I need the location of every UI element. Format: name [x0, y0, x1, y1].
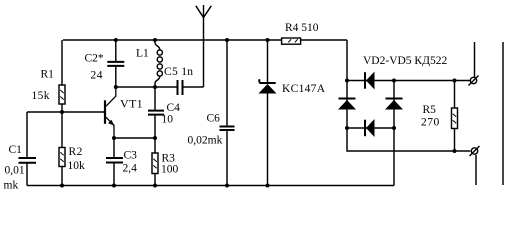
node zener top bus [266, 38, 270, 42]
resistor R4 [282, 38, 301, 44]
svg-text:R1: R1 [41, 69, 55, 81]
svg-text:270: 270 [421, 117, 440, 129]
node bridge bottom-left [345, 126, 349, 130]
svg-text:R5: R5 [423, 104, 437, 116]
svg-text:0,02mk: 0,02mk [188, 135, 223, 147]
resistor R2 [59, 112, 65, 186]
node bridge bottom-right [392, 126, 396, 130]
svg-text:KC147A: KC147A [282, 83, 326, 95]
svg-text:L1: L1 [136, 48, 149, 60]
svg-text:VT1: VT1 [120, 97, 143, 111]
wire top supply bus [63, 39, 347, 41]
node C6 ground [225, 184, 229, 188]
wire bridge bottom rail [347, 127, 394, 129]
terminal bottom output [470, 146, 480, 185]
node C6 top bus [225, 38, 229, 42]
node R3 ground [153, 184, 157, 188]
capacitor C2 [107, 40, 124, 87]
node R5 top [453, 79, 457, 83]
wire bridge right rail [393, 81, 395, 186]
node collector [114, 85, 118, 89]
node bridge top-right [392, 79, 396, 83]
wire bridge left rail [347, 40, 470, 151]
zener diode VD1 KC147A [259, 40, 277, 186]
svg-text:0,01: 0,01 [5, 165, 25, 177]
svg-text:24: 24 [91, 70, 104, 82]
node L1 top [153, 38, 157, 42]
node C3 ground [112, 184, 116, 188]
diode VD3 left [338, 99, 356, 110]
node R5 bottom [453, 149, 457, 153]
resistor R5 [452, 81, 458, 152]
svg-text:C5 1n: C5 1n [164, 66, 193, 78]
node C4 / R3 [153, 136, 157, 140]
node bridge top-left [345, 79, 349, 83]
svg-text:mk: mk [4, 180, 19, 192]
node emitter / C3 [112, 136, 116, 140]
svg-text:10: 10 [162, 114, 174, 126]
svg-text:C2*: C2* [85, 53, 104, 65]
node C2 top bus [114, 38, 118, 42]
terminal top output [469, 42, 479, 86]
capacitor C3 [106, 138, 123, 186]
svg-text:C1: C1 [9, 144, 23, 156]
inductor L1 [155, 40, 162, 87]
diode VD5 bottom [365, 119, 375, 137]
diode VD4 right [385, 99, 403, 110]
svg-text:2,4: 2,4 [123, 163, 138, 175]
transistor VT1 [105, 87, 116, 138]
capacitor C1 [19, 112, 37, 186]
svg-text:C3: C3 [124, 150, 138, 162]
svg-text:R4 510: R4 510 [285, 22, 319, 34]
wire base bias line [27, 111, 104, 113]
wire collector tank line [116, 86, 177, 88]
svg-text:100: 100 [161, 164, 179, 176]
node base line / R1 R2 junction [60, 110, 64, 114]
capacitor C6 [220, 40, 235, 186]
diode VD2 top [365, 72, 375, 90]
svg-text:C4: C4 [167, 102, 181, 114]
svg-text:10k: 10k [68, 160, 86, 172]
node zener ground [266, 184, 270, 188]
svg-text:VD2-VD5 КД522: VD2-VD5 КД522 [363, 55, 447, 67]
capacitor C5 [178, 80, 204, 95]
wire bridge top rail [347, 80, 470, 82]
svg-text:C6: C6 [207, 112, 221, 124]
svg-text:15k: 15k [32, 90, 50, 102]
node R2 ground [60, 184, 64, 188]
antenna [196, 5, 212, 87]
node L1 bottom / C4 [153, 85, 157, 89]
wire right edge [502, 42, 504, 185]
wire bottom ground bus [27, 185, 394, 187]
resistor R3 [152, 138, 158, 186]
capacitor C4 [148, 87, 164, 138]
resistor R1 [59, 40, 65, 112]
wire emitter line [114, 137, 155, 139]
svg-text:R2: R2 [69, 146, 83, 158]
